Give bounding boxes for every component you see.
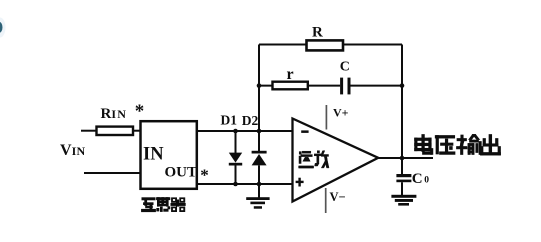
svg-text:IN: IN [143, 145, 164, 165]
svg-text:V+: V+ [333, 105, 349, 119]
svg-text:OUT: OUT [165, 165, 198, 181]
wire D2 vertical / feedback left [258, 45, 260, 152]
wire transformer bottom output [197, 183, 293, 185]
op-amp U1 [293, 119, 379, 202]
junction dot D2 top [257, 129, 262, 134]
wire feedback middle right [351, 85, 403, 87]
wire op-amp output [378, 157, 433, 159]
wire feedback right vertical [401, 45, 403, 159]
svg-text:0: 0 [424, 175, 429, 185]
transformer U1 box [141, 121, 197, 189]
junction dot D2 bottom [257, 182, 262, 187]
diode D2 [252, 151, 267, 184]
svg-text:C: C [412, 171, 423, 187]
svg-text:*: * [200, 166, 209, 185]
label output 电压输出 [415, 135, 501, 156]
char 出 [489, 135, 492, 153]
op-amp plus input mark [296, 178, 304, 187]
char 输 [457, 139, 467, 141]
wire transformer top output [197, 130, 293, 132]
label op-amp 运放 [299, 151, 329, 168]
char 压 [435, 136, 455, 139]
svg-text:D2: D2 [242, 113, 259, 128]
svg-text:R: R [312, 25, 323, 41]
svg-text:RIN: RIN [101, 106, 128, 122]
junction dot output [400, 156, 405, 161]
diode D1 [229, 131, 242, 184]
bullet mark at left edge [0, 22, 3, 33]
capacitor C [340, 78, 350, 95]
wire RIN to transformer [133, 130, 141, 132]
wire feedback middle left [259, 85, 340, 87]
char 电 [422, 135, 425, 152]
bullet halo at left edge [0, 18, 6, 38]
wire VIN top lead [81, 130, 97, 132]
op-amp minus input mark [301, 130, 308, 133]
V+ power line [325, 105, 327, 130]
resistor RIN [97, 127, 134, 135]
wire VIN bottom lead [84, 172, 141, 174]
label transformer 互感器 [141, 198, 185, 212]
junction dot feedback left [257, 83, 262, 88]
ground below D2 [246, 184, 269, 209]
resistor R [307, 40, 344, 50]
svg-text:VIN: VIN [60, 142, 86, 159]
svg-text:V−: V− [330, 190, 346, 204]
junction dot feedback right [400, 83, 405, 88]
wire feedback top [259, 44, 402, 46]
capacitor C0 [396, 158, 411, 195]
junction dot D1 bottom [233, 182, 238, 187]
svg-text:D1: D1 [221, 113, 238, 128]
svg-text:C: C [340, 60, 350, 75]
junction dot D1 top [233, 129, 238, 134]
svg-text:r: r [287, 66, 294, 83]
resistor r [273, 82, 308, 90]
V- power line [325, 188, 327, 213]
ground below C0 [391, 195, 416, 206]
svg-text:*: * [135, 101, 145, 122]
